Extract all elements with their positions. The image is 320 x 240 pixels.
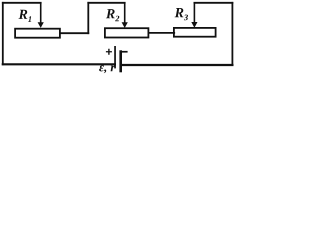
wire: R1 right terminal to riser [60,32,88,34]
battery short plate (negative, thick) [119,50,122,72]
wire: right rail [231,3,233,65]
arrowhead R2 [122,22,128,28]
wiper arrow stem onto R1 [40,4,42,23]
battery plus sign [106,49,112,55]
battery long plate (positive) [114,46,116,68]
arrowhead R1 [38,22,44,28]
resistor R2 box [105,28,148,37]
wire: riser up to rail B [87,3,89,33]
label R2 [106,9,119,21]
label R1 [19,10,32,22]
resistor R3 box [174,28,216,37]
wire: bottom wire right of battery [121,64,233,66]
circuit figure: three rheostats R1 R2 R3 in series with battery (emf, r) [0,0,236,81]
label emf, r [99,65,115,73]
wire: top rail segment B (feeds R2 wiper) [88,2,124,4]
resistor R1 box [15,29,60,38]
wiper arrow stem onto R3 [193,4,195,22]
wiper arrow stem onto R2 [124,4,126,23]
wire: left rail [2,3,4,65]
arrowhead R3 [191,22,197,28]
wire: top rail segment C (feeds R3 wiper) [194,2,232,4]
wire: R2 right terminal to R3 left terminal [148,32,174,34]
wire: bottom wire left of battery [3,63,115,65]
wire: top rail segment A (feeds R1 wiper) [3,2,41,4]
label R3 [175,8,188,20]
battery minus mark [122,51,128,53]
